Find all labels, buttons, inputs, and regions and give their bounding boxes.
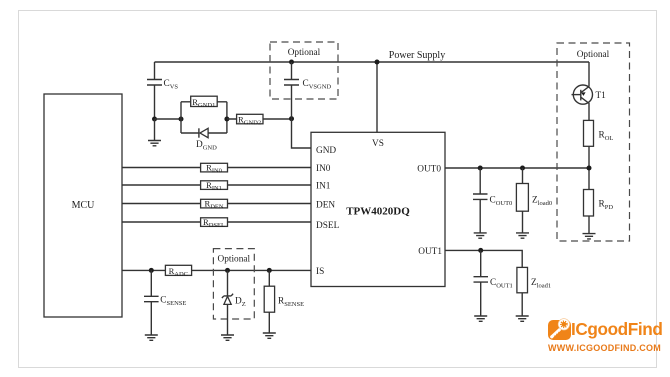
svg-text:TPW4020DQ: TPW4020DQ xyxy=(346,206,410,218)
svg-text:DZ: DZ xyxy=(235,297,246,309)
diode DGND xyxy=(181,128,227,151)
svg-text:GND: GND xyxy=(316,146,336,156)
wire OUT0 rail xyxy=(445,167,589,169)
ground under CVS xyxy=(148,119,161,146)
ground under COUT1 xyxy=(474,316,487,321)
node COUT0 tap xyxy=(478,166,483,171)
svg-text:Power Supply: Power Supply xyxy=(389,50,445,61)
svg-text:Optional: Optional xyxy=(218,255,251,265)
optional box top xyxy=(270,42,338,99)
svg-text:OUT0: OUT0 xyxy=(417,165,441,175)
optional box right xyxy=(557,43,630,241)
svg-text:COUT0: COUT0 xyxy=(490,196,513,208)
svg-text:RSENSE: RSENSE xyxy=(278,297,304,309)
impedance Zload0 xyxy=(516,168,552,233)
svg-text:WWW.ICGOODFIND.COM: WWW.ICGOODFIND.COM xyxy=(548,343,661,353)
resistor RGND1 xyxy=(181,96,227,109)
svg-text:COUT1: COUT1 xyxy=(490,278,513,290)
svg-text:Zload1: Zload1 xyxy=(531,278,551,290)
svg-text:ICgoodFind: ICgoodFind xyxy=(571,319,662,339)
svg-text:OUT1: OUT1 xyxy=(418,247,442,257)
node CVS bottom xyxy=(152,117,157,122)
resistor RADC xyxy=(165,265,191,278)
op IC TPW4020DQ U1 xyxy=(311,132,445,286)
svg-text:T1: T1 xyxy=(596,91,607,101)
wire IS row xyxy=(122,269,311,271)
svg-text:ROL: ROL xyxy=(599,131,614,143)
node VS junction xyxy=(375,60,380,65)
resistor RSENSE xyxy=(264,270,304,333)
svg-text:IS: IS xyxy=(316,267,324,277)
node right of pair xyxy=(224,117,229,122)
ground under DZ xyxy=(221,335,234,340)
svg-text:Optional: Optional xyxy=(288,48,321,58)
wire VS drop xyxy=(376,62,378,132)
ground under CSENSE xyxy=(145,335,158,340)
ground under Zload0 xyxy=(516,233,529,238)
transistor T1 xyxy=(572,62,607,120)
node DZ tap xyxy=(225,268,230,273)
svg-text:CVSGND: CVSGND xyxy=(303,79,332,91)
svg-text:VS: VS xyxy=(372,139,384,149)
capacitor CVSGND xyxy=(284,62,331,119)
wire ROL to RPD xyxy=(588,146,590,189)
wire node to parallel pair xyxy=(155,118,182,120)
ground under RPD xyxy=(583,234,596,239)
wire parallel loop right xyxy=(226,102,228,133)
wire parallel loop left xyxy=(180,102,182,133)
svg-text:DGND: DGND xyxy=(196,140,217,152)
svg-text:IN0: IN0 xyxy=(316,164,331,174)
capacitor COUT1 xyxy=(474,250,513,316)
node power rail CVSGND xyxy=(289,60,294,65)
wire DEN + resistor RDEN xyxy=(122,199,311,211)
capacitor CSENSE xyxy=(144,270,186,335)
svg-text:CVS: CVS xyxy=(164,79,179,91)
wire RPD to ground xyxy=(588,216,590,234)
impedance Zload1 xyxy=(517,267,551,316)
logo icon xyxy=(548,319,571,340)
resistor RGND2 xyxy=(227,114,292,126)
ground under COUT0 xyxy=(474,233,487,238)
wire OUT1 rail xyxy=(445,250,522,267)
optional box bottom xyxy=(213,249,254,319)
node left of pair xyxy=(179,117,184,122)
ground under RSENSE xyxy=(263,333,276,338)
svg-text:DEN: DEN xyxy=(316,201,335,211)
MCU U2 xyxy=(44,94,122,317)
resistor ROL xyxy=(584,120,614,146)
resistor RPD xyxy=(584,190,614,217)
wire DSEL + resistor RDSEL xyxy=(122,217,311,229)
wire IN1 + resistor RIN1 xyxy=(122,180,311,192)
node Zload0 tap xyxy=(520,166,525,171)
node COUT1 tap xyxy=(478,248,483,253)
wire power rail xyxy=(155,61,590,63)
svg-text:CSENSE: CSENSE xyxy=(160,296,186,308)
ground under Zload1 xyxy=(516,316,529,321)
svg-text:RPD: RPD xyxy=(599,200,614,212)
capacitor COUT0 xyxy=(473,168,512,233)
wire GND pin xyxy=(292,119,312,148)
svg-text:DSEL: DSEL xyxy=(316,221,340,231)
svg-text:Optional: Optional xyxy=(577,50,610,60)
wire IN0 + resistor RIN0 xyxy=(122,163,311,175)
node RSENSE tap xyxy=(267,268,272,273)
node OUT0 to ROL junction xyxy=(587,166,592,171)
capacitor CVS xyxy=(147,62,178,119)
svg-text:MCU: MCU xyxy=(72,200,96,211)
node RGND2 to CVSGND xyxy=(289,116,294,121)
svg-text:IN1: IN1 xyxy=(316,182,331,192)
svg-text:Zload0: Zload0 xyxy=(532,196,552,208)
node CSENSE tap xyxy=(149,268,154,273)
diode DZ zener xyxy=(222,270,246,335)
